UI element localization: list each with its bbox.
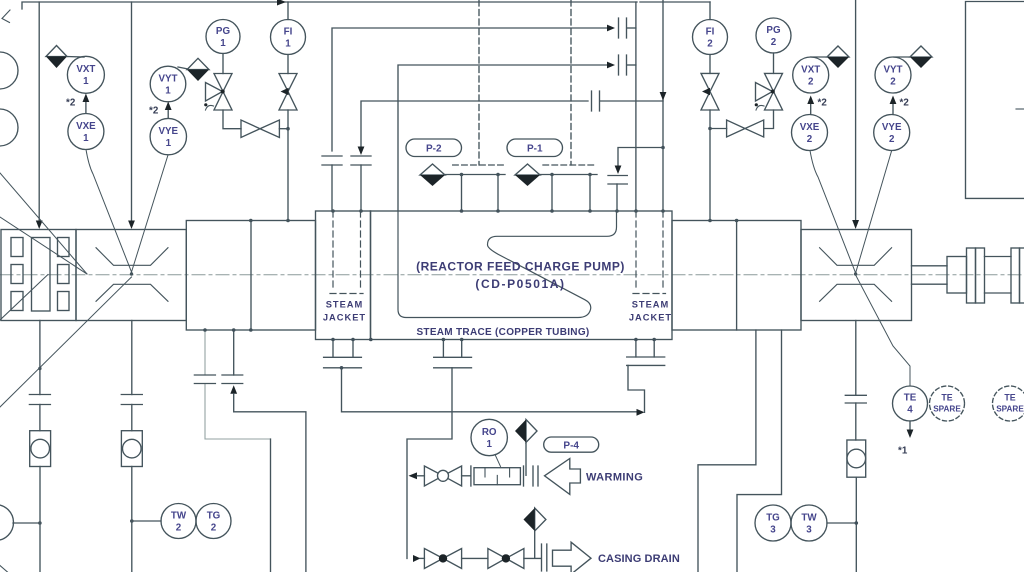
leader VXE2 to seal (810, 151, 856, 274)
wire branch to coil (618, 148, 663, 166)
svg-text:2: 2 (890, 77, 896, 88)
instrument PG1 (206, 20, 240, 54)
svg-text:*2: *2 (818, 98, 828, 109)
leader coupling lower (0, 275, 48, 321)
seal block E (801, 230, 912, 321)
diamond VXT1 (46, 46, 67, 57)
instrument PG2 (756, 18, 791, 53)
svg-text:2: 2 (889, 134, 895, 145)
sight glass 3 (847, 440, 866, 477)
arrow into drain header (409, 472, 418, 479)
left jacket bottom unions (333, 340, 353, 358)
wire steam line y28 (332, 28, 607, 151)
svg-text:1: 1 (285, 39, 291, 50)
instrument VYE2 (874, 115, 910, 151)
gate valve PG1-FI1 (241, 120, 279, 138)
instrument TG3 (755, 505, 791, 541)
instrument VXE2 (792, 115, 828, 151)
wire FI1 drop (287, 2, 289, 20)
svg-text:TG: TG (207, 511, 221, 522)
instrument VYT1 (150, 66, 186, 102)
instrument VXE1 (68, 114, 104, 150)
seal block B (76, 230, 186, 321)
leader VYE1 to seal (132, 155, 169, 272)
wire bearing drain D2 (737, 330, 782, 572)
globe valve warming (424, 466, 461, 486)
dashed link P-2 (453, 164, 505, 166)
svg-text:TW: TW (171, 511, 187, 522)
wire seal line x131.8 (131, 321, 133, 395)
svg-text:PG: PG (216, 26, 231, 37)
svg-text:VXE: VXE (800, 122, 820, 133)
svg-text:4: 4 (907, 405, 913, 416)
leader VYE2 to seal (856, 151, 892, 274)
flag CASING DRAIN (553, 542, 592, 572)
svg-text:3: 3 (770, 525, 776, 536)
right jacket bottom unions (636, 340, 654, 358)
instrument FI2 (693, 20, 728, 55)
gate valve PG2-FI2 (727, 120, 764, 137)
svg-text:SPARE: SPARE (933, 405, 961, 414)
dashed signal vertical 1 (478, 0, 480, 165)
internal divider (370, 211, 372, 340)
wire top header right (640, 1, 710, 3)
svg-text:JACKET: JACKET (629, 313, 672, 323)
svg-text:VXE: VXE (76, 121, 96, 132)
instrument left partial (0, 505, 14, 541)
steam jacket left dashed (330, 211, 363, 294)
coupling flanges 2 (1011, 248, 1020, 303)
svg-text:P-2: P-2 (426, 144, 442, 155)
svg-text:RO: RO (482, 427, 497, 438)
coupling hub (947, 257, 967, 294)
diamond VXT2 (827, 46, 849, 57)
wire seal line x39.9 (39, 321, 41, 395)
instrument TW3 (791, 505, 827, 541)
instrument TE4 (893, 386, 928, 421)
leader VXE1 to seal (86, 150, 132, 273)
svg-text:WARMING: WARMING (586, 472, 643, 484)
spacer (985, 257, 1012, 294)
steam trace coil (398, 211, 617, 318)
corner mark bottom-left (0, 566, 8, 572)
leader seal to TE4 (856, 275, 910, 386)
svg-text:TG: TG (766, 513, 780, 524)
svg-text:P-4: P-4 (563, 441, 579, 452)
svg-text:P-1: P-1 (527, 144, 543, 155)
svg-text:CASING DRAIN: CASING DRAIN (598, 553, 680, 565)
coupling flanges (967, 248, 976, 303)
dashed signal vertical 2 (570, 0, 572, 165)
steam jacket right dashed (633, 211, 666, 294)
wire bearing drain C2 (233, 330, 235, 375)
wire PG1 to block valve (223, 110, 241, 129)
instrument VYE1 (150, 118, 186, 154)
wire steam line y65 (398, 65, 607, 211)
junction dots (130, 272, 133, 275)
corner mark top-left (2, 10, 10, 23)
svg-text:(CD-P0501A): (CD-P0501A) (475, 277, 565, 291)
svg-text:1: 1 (165, 86, 171, 97)
svg-text:STEAM: STEAM (326, 300, 364, 310)
svg-text:2: 2 (211, 523, 217, 534)
diamond VYT1 (187, 58, 209, 69)
svg-text:1: 1 (166, 138, 172, 149)
sight glass 2 (121, 431, 142, 467)
valve below FI2 (701, 73, 719, 110)
svg-text:2: 2 (176, 523, 182, 534)
union on jacket line x332 (322, 156, 342, 165)
arrow and union x361 (358, 147, 365, 156)
wire steam main drop x636 (635, 2, 637, 211)
wire drop to right seal (855, 0, 857, 222)
wire drop line A (38, 2, 40, 222)
sight glass 1 (30, 431, 51, 467)
diamond drain (535, 508, 546, 531)
dashed link P-1 (543, 164, 597, 166)
svg-text:1: 1 (486, 439, 492, 450)
arrow VYE1 to VYT1 (167, 108, 169, 118)
svg-text:2: 2 (807, 134, 813, 145)
3-way valve below PG1 (214, 74, 232, 111)
equipment box top right (966, 2, 1024, 199)
leader left 1 (0, 173, 87, 274)
instrument RO1 (471, 419, 507, 455)
instrument VXT2 (793, 57, 829, 93)
svg-text:FI: FI (706, 27, 715, 38)
wire drop line B (131, 2, 133, 222)
wire FI2 drop (709, 2, 711, 20)
shaft (912, 266, 948, 284)
instrument FI1 (271, 20, 306, 55)
leader seal to bottom-left (0, 277, 132, 407)
svg-text:1: 1 (83, 133, 89, 144)
wire steam line y101 (361, 101, 588, 146)
diamond P-4 (526, 420, 537, 443)
restriction orifice RO1 (470, 466, 472, 486)
svg-text:STEAM TRACE (COPPER TUBING): STEAM TRACE (COPPER TUBING) (416, 327, 589, 338)
svg-text:1: 1 (83, 76, 89, 87)
flag WARMING (545, 459, 581, 495)
valve drain 2 (488, 549, 524, 569)
svg-text:*2: *2 (149, 106, 159, 117)
svg-text:JACKET: JACKET (323, 313, 366, 323)
svg-text:3: 3 (806, 525, 812, 536)
instrument TG2 (196, 504, 231, 539)
svg-text:VYT: VYT (158, 74, 177, 85)
wire casing drain (413, 555, 421, 562)
motor coupling block A (1, 230, 76, 321)
valve drain 1 (424, 549, 461, 569)
node centerline (0, 274, 1024, 276)
arrow VXE1 to VXT1 (85, 100, 87, 113)
instrument left edge 2 (0, 109, 18, 146)
svg-text:*2: *2 (66, 98, 76, 109)
svg-text:VXT: VXT (801, 65, 820, 76)
instrument VYT2 (875, 57, 911, 93)
wire bearing drain D1 (698, 330, 756, 572)
diamond P-1 (515, 164, 540, 175)
wire condensate left (342, 368, 637, 412)
instrument VXT1 (67, 56, 104, 93)
wire seal line x856 (855, 321, 857, 396)
3-way valve below PG2 (765, 73, 783, 110)
svg-text:TE: TE (1004, 393, 1015, 403)
svg-text:2: 2 (707, 39, 713, 50)
wire P-1 manifold (540, 174, 597, 176)
diamond P-2 (420, 164, 445, 175)
svg-text:STEAM: STEAM (632, 300, 670, 310)
diamond VYT2 (910, 46, 932, 57)
wire P-2 manifold (445, 174, 505, 176)
instrument TE SPARE 2 (993, 386, 1024, 421)
label P-2 (406, 139, 462, 157)
svg-text:VYT: VYT (883, 65, 902, 76)
wire FI2 to pump (709, 110, 711, 221)
svg-text:1: 1 (220, 38, 226, 49)
bearing block C (186, 221, 315, 331)
svg-text:2: 2 (808, 77, 814, 88)
wire PG2 to block valve (764, 110, 774, 129)
svg-text:SPARE: SPARE (996, 405, 1024, 414)
bearing block D (672, 221, 801, 331)
svg-text:2: 2 (771, 37, 777, 48)
svg-text:TW: TW (801, 513, 817, 524)
leader left 2 (0, 217, 87, 274)
coil bottom unions (443, 340, 461, 358)
svg-text:PG: PG (766, 25, 781, 36)
wire right jacket drain (628, 365, 645, 412)
wire top header left (22, 2, 637, 9)
svg-text:VYE: VYE (882, 122, 902, 133)
svg-text:(REACTOR FEED CHARGE PUMP): (REACTOR FEED CHARGE PUMP) (416, 260, 625, 274)
wire FI1 to pump (287, 110, 289, 221)
svg-text:TE: TE (904, 393, 917, 404)
label P-1 (507, 139, 563, 157)
svg-text:TE: TE (941, 393, 952, 403)
svg-text:FI: FI (284, 27, 293, 38)
wire steam drop x663 (662, 0, 664, 211)
svg-text:*1: *1 (898, 446, 908, 457)
pump casing main box (316, 211, 673, 340)
wire coil drain (407, 368, 452, 559)
svg-text:VXT: VXT (76, 64, 95, 75)
svg-text:VYE: VYE (158, 126, 178, 137)
instrument TW2 (161, 504, 196, 539)
instrument left edge 1 (0, 52, 18, 89)
wire bearing drain C1 (gray) (205, 330, 271, 439)
flow arrow on top header (277, 0, 286, 6)
label P-4 oval (544, 437, 599, 452)
instrument TE SPARE 1 (930, 386, 965, 421)
svg-text:*2: *2 (900, 98, 910, 109)
valve below FI1 (279, 74, 297, 111)
